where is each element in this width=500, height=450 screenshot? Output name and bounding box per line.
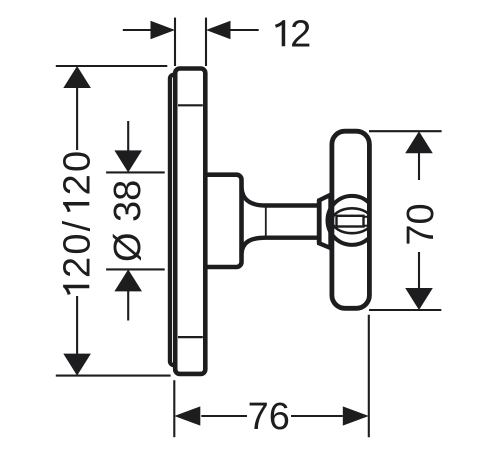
svg-text:76: 76 (248, 396, 290, 438)
svg-text:70: 70 (400, 203, 442, 245)
svg-text:20: 20 (56, 149, 98, 196)
svg-text:38: 38 (107, 180, 149, 222)
svg-text:20/: 20/ (56, 219, 98, 278)
svg-text:Ø: Ø (107, 232, 149, 262)
svg-text:2: 2 (290, 13, 311, 55)
